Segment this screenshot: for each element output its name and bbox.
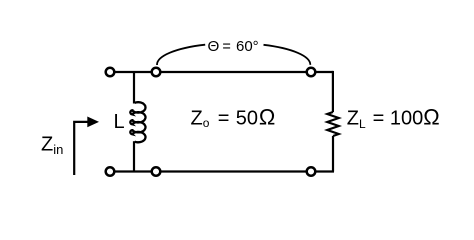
node terminal bottom-left (106, 167, 115, 176)
node terminal bottom line-output (307, 167, 316, 176)
resistor ZL zigzag (327, 112, 338, 136)
svg-text:Θ: Θ (208, 38, 220, 55)
svg-text:ZL: ZL (347, 107, 366, 130)
wire inductor branch top (133, 71, 135, 104)
theta leader arc left (157, 45, 205, 65)
svg-text:Zin: Zin (41, 134, 63, 158)
node terminal bottom line-input (152, 167, 161, 176)
svg-text:60°: 60° (236, 38, 259, 55)
Zin arrowhead (87, 117, 99, 128)
svg-text:100: 100 (390, 107, 423, 129)
svg-text:=: = (373, 107, 385, 129)
inductor L coil (130, 102, 145, 142)
wire bottom (110, 170, 334, 172)
svg-text:50: 50 (236, 107, 258, 129)
svg-text:Ω: Ω (423, 104, 439, 129)
node terminal top line-input (152, 68, 161, 77)
theta leader arc right (264, 45, 311, 65)
svg-text:Zo: Zo (191, 107, 210, 129)
node terminal top-left (106, 68, 115, 77)
node terminal top line-output (307, 68, 316, 77)
svg-text:=: = (222, 39, 230, 55)
svg-text:L: L (114, 111, 125, 133)
wire right vertical top (332, 71, 334, 112)
wire right vertical bottom (332, 136, 334, 172)
svg-text:=: = (218, 107, 230, 129)
svg-text:Ω: Ω (259, 104, 275, 129)
Zin arrow line (74, 122, 88, 175)
wire inductor branch bottom (133, 141, 135, 171)
wire top (110, 71, 333, 73)
